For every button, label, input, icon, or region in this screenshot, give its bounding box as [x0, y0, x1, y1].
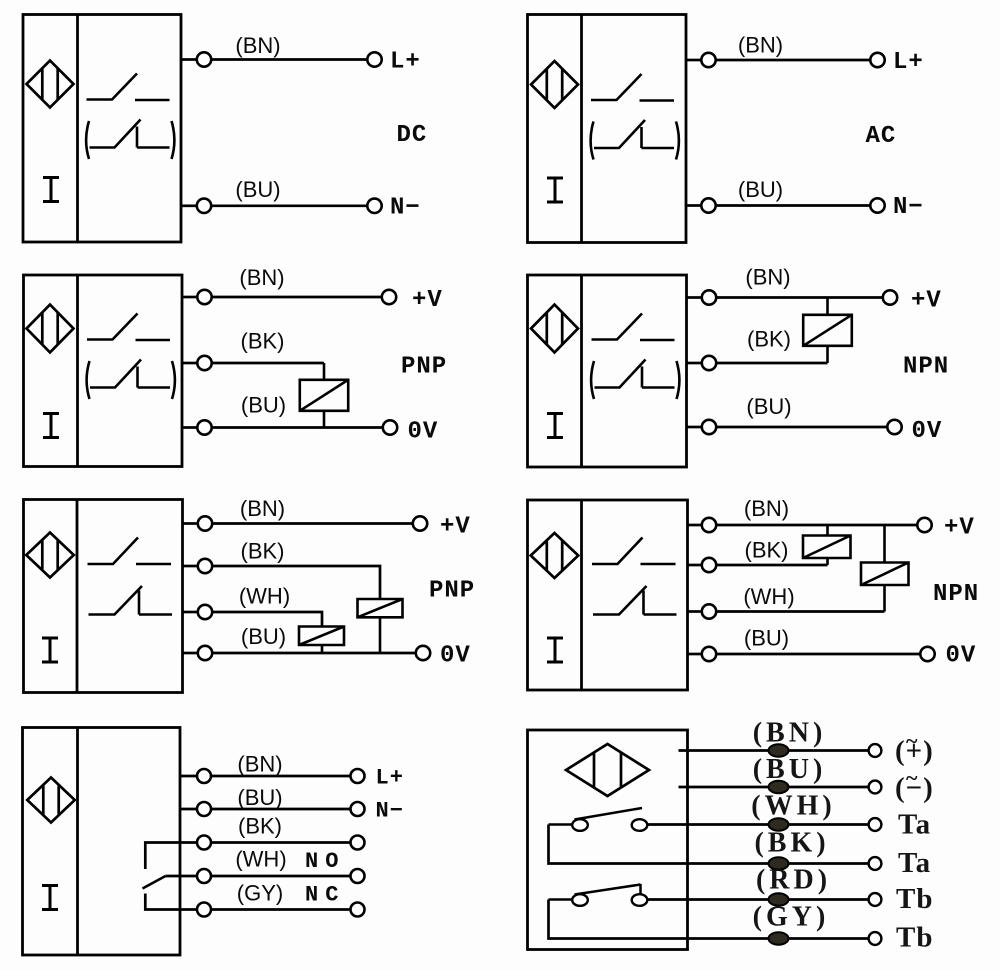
- node circle on U3 BU wire: [197, 420, 211, 434]
- sensor U2 programmable contact (parentheses): [591, 120, 679, 160]
- svg-text:(BK): (BK): [238, 814, 282, 839]
- node circle on U7 GY wire: [197, 903, 211, 917]
- sensor U7 output-type label I: [42, 886, 58, 910]
- wire (WH) to Ta terminal: [647, 823, 868, 826]
- node circle on U6 WH wire: [702, 604, 716, 618]
- svg-text:Ta: Ta: [898, 847, 931, 879]
- wire stub BN from U3: [182, 296, 197, 299]
- thermostat Ta right contact circle: [632, 819, 648, 831]
- thermostat contact Ta left lead: [549, 823, 573, 826]
- svg-text:+V: +V: [911, 288, 942, 315]
- svg-text:(BK): (BK): [745, 538, 789, 563]
- node circle on U7 BK wire: [197, 836, 211, 850]
- wire (WH) to terminal (5-wire): [211, 875, 351, 878]
- terminal 0V circle (PNP3): [383, 420, 397, 434]
- node circle on U5 BK wire: [198, 559, 212, 573]
- wire (RD) to Tb terminal: [647, 898, 868, 901]
- wire stub BU from U6: [688, 653, 703, 656]
- thermostat Ta left contact circle: [572, 819, 588, 831]
- wire (BU) to 0V (PNP4): [212, 652, 416, 655]
- thermostat Tb right contact circle: [632, 894, 648, 906]
- wire (BN) to (+) terminal: [679, 749, 869, 752]
- node circle on U7 BN wire: [197, 769, 211, 783]
- junction blob on RD wire: [769, 893, 789, 905]
- junction blob on BN wire: [769, 744, 789, 756]
- svg-text:Tb: Tb: [896, 922, 933, 954]
- wire stub BN from U4: [687, 296, 702, 299]
- svg-text:L+: L+: [893, 49, 924, 76]
- sensor U5 output-type label I: [42, 638, 58, 662]
- sensor U7 inductive-head symbol: [27, 778, 75, 823]
- terminal 0V circle (PNP4): [416, 646, 430, 660]
- sensor U7 body (5-wire): [23, 728, 181, 956]
- wire (BK) output to load 1 (PNP4): [212, 566, 380, 599]
- sensor U3 body (PNP 3-wire): [24, 275, 183, 467]
- wire (BN) to +V: [212, 296, 382, 299]
- svg-text:(BU): (BU): [753, 754, 827, 785]
- terminal L+ circle: [367, 52, 381, 66]
- wire (BN) to +V (NPN3): [716, 296, 883, 299]
- sensor U2 NO contact: [591, 74, 674, 101]
- node circle on U7 WH wire: [197, 869, 211, 883]
- svg-text:0V: 0V: [408, 419, 439, 446]
- svg-text:(BN): (BN): [753, 718, 827, 749]
- svg-text:+V: +V: [944, 515, 975, 542]
- terminal (-) circle: [869, 781, 882, 794]
- wire stub BN from U6: [688, 524, 703, 527]
- svg-text:DC: DC: [397, 122, 428, 149]
- sensor U8 inductive-head symbol (wide): [566, 744, 649, 796]
- node circle on U6 BK wire: [702, 558, 716, 572]
- load resistor 1 on U5 BK output: [358, 599, 403, 653]
- sensor U3 inductive-head symbol: [27, 305, 74, 353]
- node circle on U4 BK wire: [702, 356, 716, 370]
- wire (BU) to (-) terminal: [679, 786, 869, 789]
- relay common wire (BK) with pole riser: [145, 843, 197, 870]
- terminal node circle on U2 BU wire: [701, 198, 715, 212]
- sensor U6 NO contact: [592, 538, 676, 565]
- svg-text:(BU): (BU): [237, 785, 282, 810]
- wire (BN) from U7 body: [180, 775, 197, 778]
- sensor U5 inductive-head symbol: [26, 533, 74, 578]
- node circle on U5 BU wire: [198, 646, 212, 660]
- junction blob on BK wire: [769, 857, 789, 869]
- svg-text:+V: +V: [412, 287, 443, 314]
- sensor U7 internal divider: [76, 728, 79, 956]
- svg-text:(BN): (BN): [745, 265, 790, 290]
- sensor U5 NO contact: [88, 538, 172, 565]
- svg-text:(WH): (WH): [239, 584, 290, 609]
- terminal L+ circle (AC): [870, 53, 884, 67]
- svg-text:+V: +V: [440, 514, 471, 541]
- svg-text:(BK): (BK): [241, 329, 285, 354]
- relay changeover arm: [143, 876, 166, 889]
- node circle on U7 BU wire: [197, 802, 211, 816]
- load resistor 1 on U6 +V to BK: [803, 525, 851, 565]
- svg-text:(WH): (WH): [235, 847, 286, 872]
- sensor U4 internal divider: [580, 275, 583, 467]
- svg-text:N−: N−: [893, 194, 924, 221]
- svg-text:(BK): (BK): [747, 327, 791, 352]
- svg-text:(BN): (BN): [239, 265, 284, 290]
- wire stub BK from U4: [687, 362, 702, 365]
- wire (WH) output to load 2 (PNP4): [212, 612, 322, 627]
- load resistor on U3 output: [300, 363, 348, 428]
- sensor U6 internal divider: [580, 500, 583, 690]
- svg-text:(BU): (BU): [744, 626, 789, 651]
- wire stub BN from U1: [181, 58, 197, 61]
- node circle on U3 BK wire: [197, 356, 211, 370]
- sensor U3 programmable contact (parentheses): [87, 360, 175, 400]
- terminal circle on BK wire: [351, 836, 365, 850]
- svg-text:0V: 0V: [912, 418, 943, 445]
- wire stub BU from U1: [181, 204, 197, 207]
- terminal (+) circle: [869, 744, 882, 757]
- svg-text:(WH): (WH): [751, 791, 835, 822]
- terminal circle on GY wire: [351, 903, 365, 917]
- terminal Ta circle (WH): [869, 818, 882, 831]
- sensor U1 output-type label I: [43, 178, 59, 202]
- sensor U5 body (PNP 4-wire): [24, 500, 183, 693]
- svg-text:~: ~: [906, 765, 918, 790]
- sensor U4 NO contact: [592, 314, 675, 341]
- node circle on U4 BN wire: [702, 290, 716, 304]
- terminal +V circle (PNP3): [382, 290, 396, 304]
- sensor U6 inductive-head symbol: [531, 533, 579, 578]
- wire (BK) output to load: [212, 362, 324, 365]
- wire stub BK from U6: [688, 564, 703, 567]
- terminal N- circle: [367, 199, 381, 213]
- wire (GY) return from Tb pole: [549, 900, 869, 939]
- wire (BN) to L+ (5-wire): [211, 775, 351, 778]
- sensor U8 body (thermostat type): [528, 730, 688, 950]
- wire (BU) to N- (AC): [716, 204, 871, 207]
- terminal N- circle (5-wire): [351, 802, 365, 816]
- wire (WH) from relay NO contact: [166, 875, 198, 878]
- wire (BK) output (NPN4): [716, 564, 827, 567]
- terminal node circle on BN wire: [197, 52, 211, 66]
- sensor U3 internal divider: [76, 275, 79, 467]
- node circle on U4 BU wire: [702, 420, 716, 434]
- terminal 0V circle (NPN4): [920, 647, 934, 661]
- junction blob on WH wire: [769, 818, 789, 830]
- wire (BK) output to load (NPN3): [716, 362, 827, 365]
- svg-text:0V: 0V: [440, 643, 471, 670]
- terminal Tb circle (GY): [869, 932, 882, 945]
- svg-text:(BU): (BU): [241, 624, 286, 649]
- relay NC leg wire (GY): [145, 894, 197, 910]
- thermostat Tb contact arm with stop tick: [575, 884, 641, 895]
- svg-text:PNP: PNP: [401, 354, 447, 381]
- sensor U3 output-type label I: [43, 414, 59, 438]
- sensor U6 body (NPN 4-wire): [528, 500, 688, 690]
- sensor U2 inductive-head symbol: [531, 61, 578, 108]
- wire (WH) output (NPN4): [716, 610, 884, 613]
- svg-text:0V: 0V: [946, 643, 977, 670]
- svg-text:L+: L+: [390, 49, 421, 76]
- node circle on U5 WH wire: [198, 605, 212, 619]
- load resistor 2 on U6 +V to WH: [861, 525, 909, 612]
- svg-text:(BN): (BN): [744, 496, 789, 521]
- terminal node circle on U2 BN wire: [701, 53, 715, 67]
- sensor U1 internal divider: [76, 15, 79, 243]
- wire (BU) to N- (5-wire): [211, 808, 351, 811]
- thermostat contact Tb left lead: [549, 898, 573, 901]
- svg-text:AC: AC: [866, 123, 897, 150]
- sensor U4 inductive-head symbol: [531, 305, 578, 353]
- svg-text:Tb: Tb: [896, 883, 933, 915]
- terminal Ta circle (BK): [869, 857, 882, 870]
- svg-text:PNP: PNP: [429, 578, 475, 605]
- svg-text:(GY): (GY): [237, 881, 283, 906]
- junction blob on GY wire: [769, 932, 789, 944]
- sensor U1 NO contact: [87, 74, 170, 101]
- sensor U2 output-type label I: [547, 178, 563, 202]
- wire stub BN from U5: [183, 522, 198, 525]
- wire stub BU from U5: [183, 652, 198, 655]
- svg-text:(BU): (BU): [241, 393, 286, 418]
- svg-text:(BK): (BK): [754, 828, 829, 859]
- sensor U2 internal divider: [580, 15, 583, 243]
- sensor U1 programmable contact (parentheses): [86, 120, 174, 160]
- terminal N- circle (AC): [870, 198, 884, 212]
- terminal +V circle (NPN4): [917, 518, 931, 532]
- sensor U1 body (DC 2-wire): [23, 15, 181, 243]
- wire stub WH from U6: [688, 610, 703, 613]
- wire (BU) to 0V (NPN4): [716, 653, 920, 656]
- wire (BU) to 0V: [212, 426, 383, 429]
- wire stub BN from U2: [686, 59, 701, 62]
- node circle on U6 BU wire: [702, 647, 716, 661]
- svg-text:L+: L+: [376, 766, 404, 791]
- wire (BN) to +V (NPN4): [716, 524, 917, 527]
- wire (BN) to L+ (AC): [716, 59, 871, 62]
- wire stub BK from U3: [182, 362, 197, 365]
- svg-text:NPN: NPN: [903, 354, 949, 381]
- svg-text:(BU): (BU): [738, 177, 783, 202]
- sensor U4 programmable contact (parentheses): [591, 360, 679, 400]
- wire stub BU from U2: [686, 204, 701, 207]
- sensor U5 NC contact: [89, 586, 173, 615]
- svg-text:NC: NC: [305, 883, 345, 908]
- svg-text:N−: N−: [390, 195, 421, 222]
- sensor U1 inductive-head symbol: [27, 61, 74, 108]
- wire (BK) to terminal (5-wire): [211, 841, 351, 844]
- sensor U3 NO contact: [87, 314, 170, 341]
- svg-text:(BN): (BN): [738, 33, 783, 58]
- svg-text:~: ~: [906, 728, 918, 753]
- wire stub BU from U4: [687, 426, 702, 429]
- sensor U6 NC contact: [593, 586, 677, 615]
- wire (BN) to L+: [211, 58, 367, 61]
- terminal 0V circle (NPN3): [887, 420, 901, 434]
- svg-text:(BU): (BU): [235, 177, 280, 202]
- terminal L+ circle (5-wire): [351, 769, 365, 783]
- terminal +V circle (NPN3): [883, 290, 897, 304]
- wire stub BU from U3: [182, 426, 197, 429]
- wire (BK) return from Ta pole: [549, 825, 869, 864]
- svg-text:(RD): (RD): [756, 865, 831, 896]
- wire (BU) to 0V (NPN3): [716, 426, 887, 429]
- node circle on U3 BN wire: [197, 290, 211, 304]
- load resistor 2 on U5 WH output: [299, 627, 344, 654]
- sensor U4 body (NPN 3-wire): [528, 275, 687, 467]
- svg-text:(BN): (BN): [240, 496, 285, 521]
- sensor U4 output-type label I: [547, 414, 563, 438]
- wire stub BK from U5: [183, 565, 198, 568]
- svg-text:(WH): (WH): [743, 584, 794, 609]
- sensor U6 output-type label I: [547, 638, 563, 662]
- svg-text:(GY): (GY): [753, 902, 830, 933]
- wire (BU) from U7 body: [180, 808, 197, 811]
- sensor U5 internal divider: [76, 500, 79, 693]
- svg-text:(BN): (BN): [237, 752, 282, 777]
- svg-text:N−: N−: [376, 799, 404, 824]
- wire stub WH from U5: [183, 611, 198, 614]
- svg-text:(BN): (BN): [235, 33, 280, 58]
- terminal +V circle (PNP4): [413, 516, 427, 530]
- wire (GY) to terminal (5-wire): [211, 908, 351, 911]
- node circle on U6 BN wire: [702, 518, 716, 532]
- svg-text:Ta: Ta: [898, 809, 931, 841]
- svg-text:(BK): (BK): [241, 539, 285, 564]
- junction blob on BU wire: [769, 781, 789, 793]
- load resistor on U4 +V rail: [803, 298, 852, 364]
- node circle on U5 BN wire: [198, 516, 212, 530]
- terminal circle on WH wire: [351, 869, 365, 883]
- svg-text:NO: NO: [305, 849, 345, 874]
- terminal node circle on BU wire: [197, 199, 211, 213]
- thermostat Ta contact arm: [575, 808, 643, 820]
- svg-text:(BU): (BU): [746, 394, 791, 419]
- wire (BU) to N-: [211, 204, 367, 207]
- terminal Tb circle (RD): [869, 893, 882, 906]
- svg-text:NPN: NPN: [933, 581, 979, 608]
- wire (BN) to +V (PNP4): [212, 522, 413, 525]
- thermostat Tb left contact circle: [572, 894, 588, 906]
- sensor U2 body (AC 2-wire): [528, 15, 687, 243]
